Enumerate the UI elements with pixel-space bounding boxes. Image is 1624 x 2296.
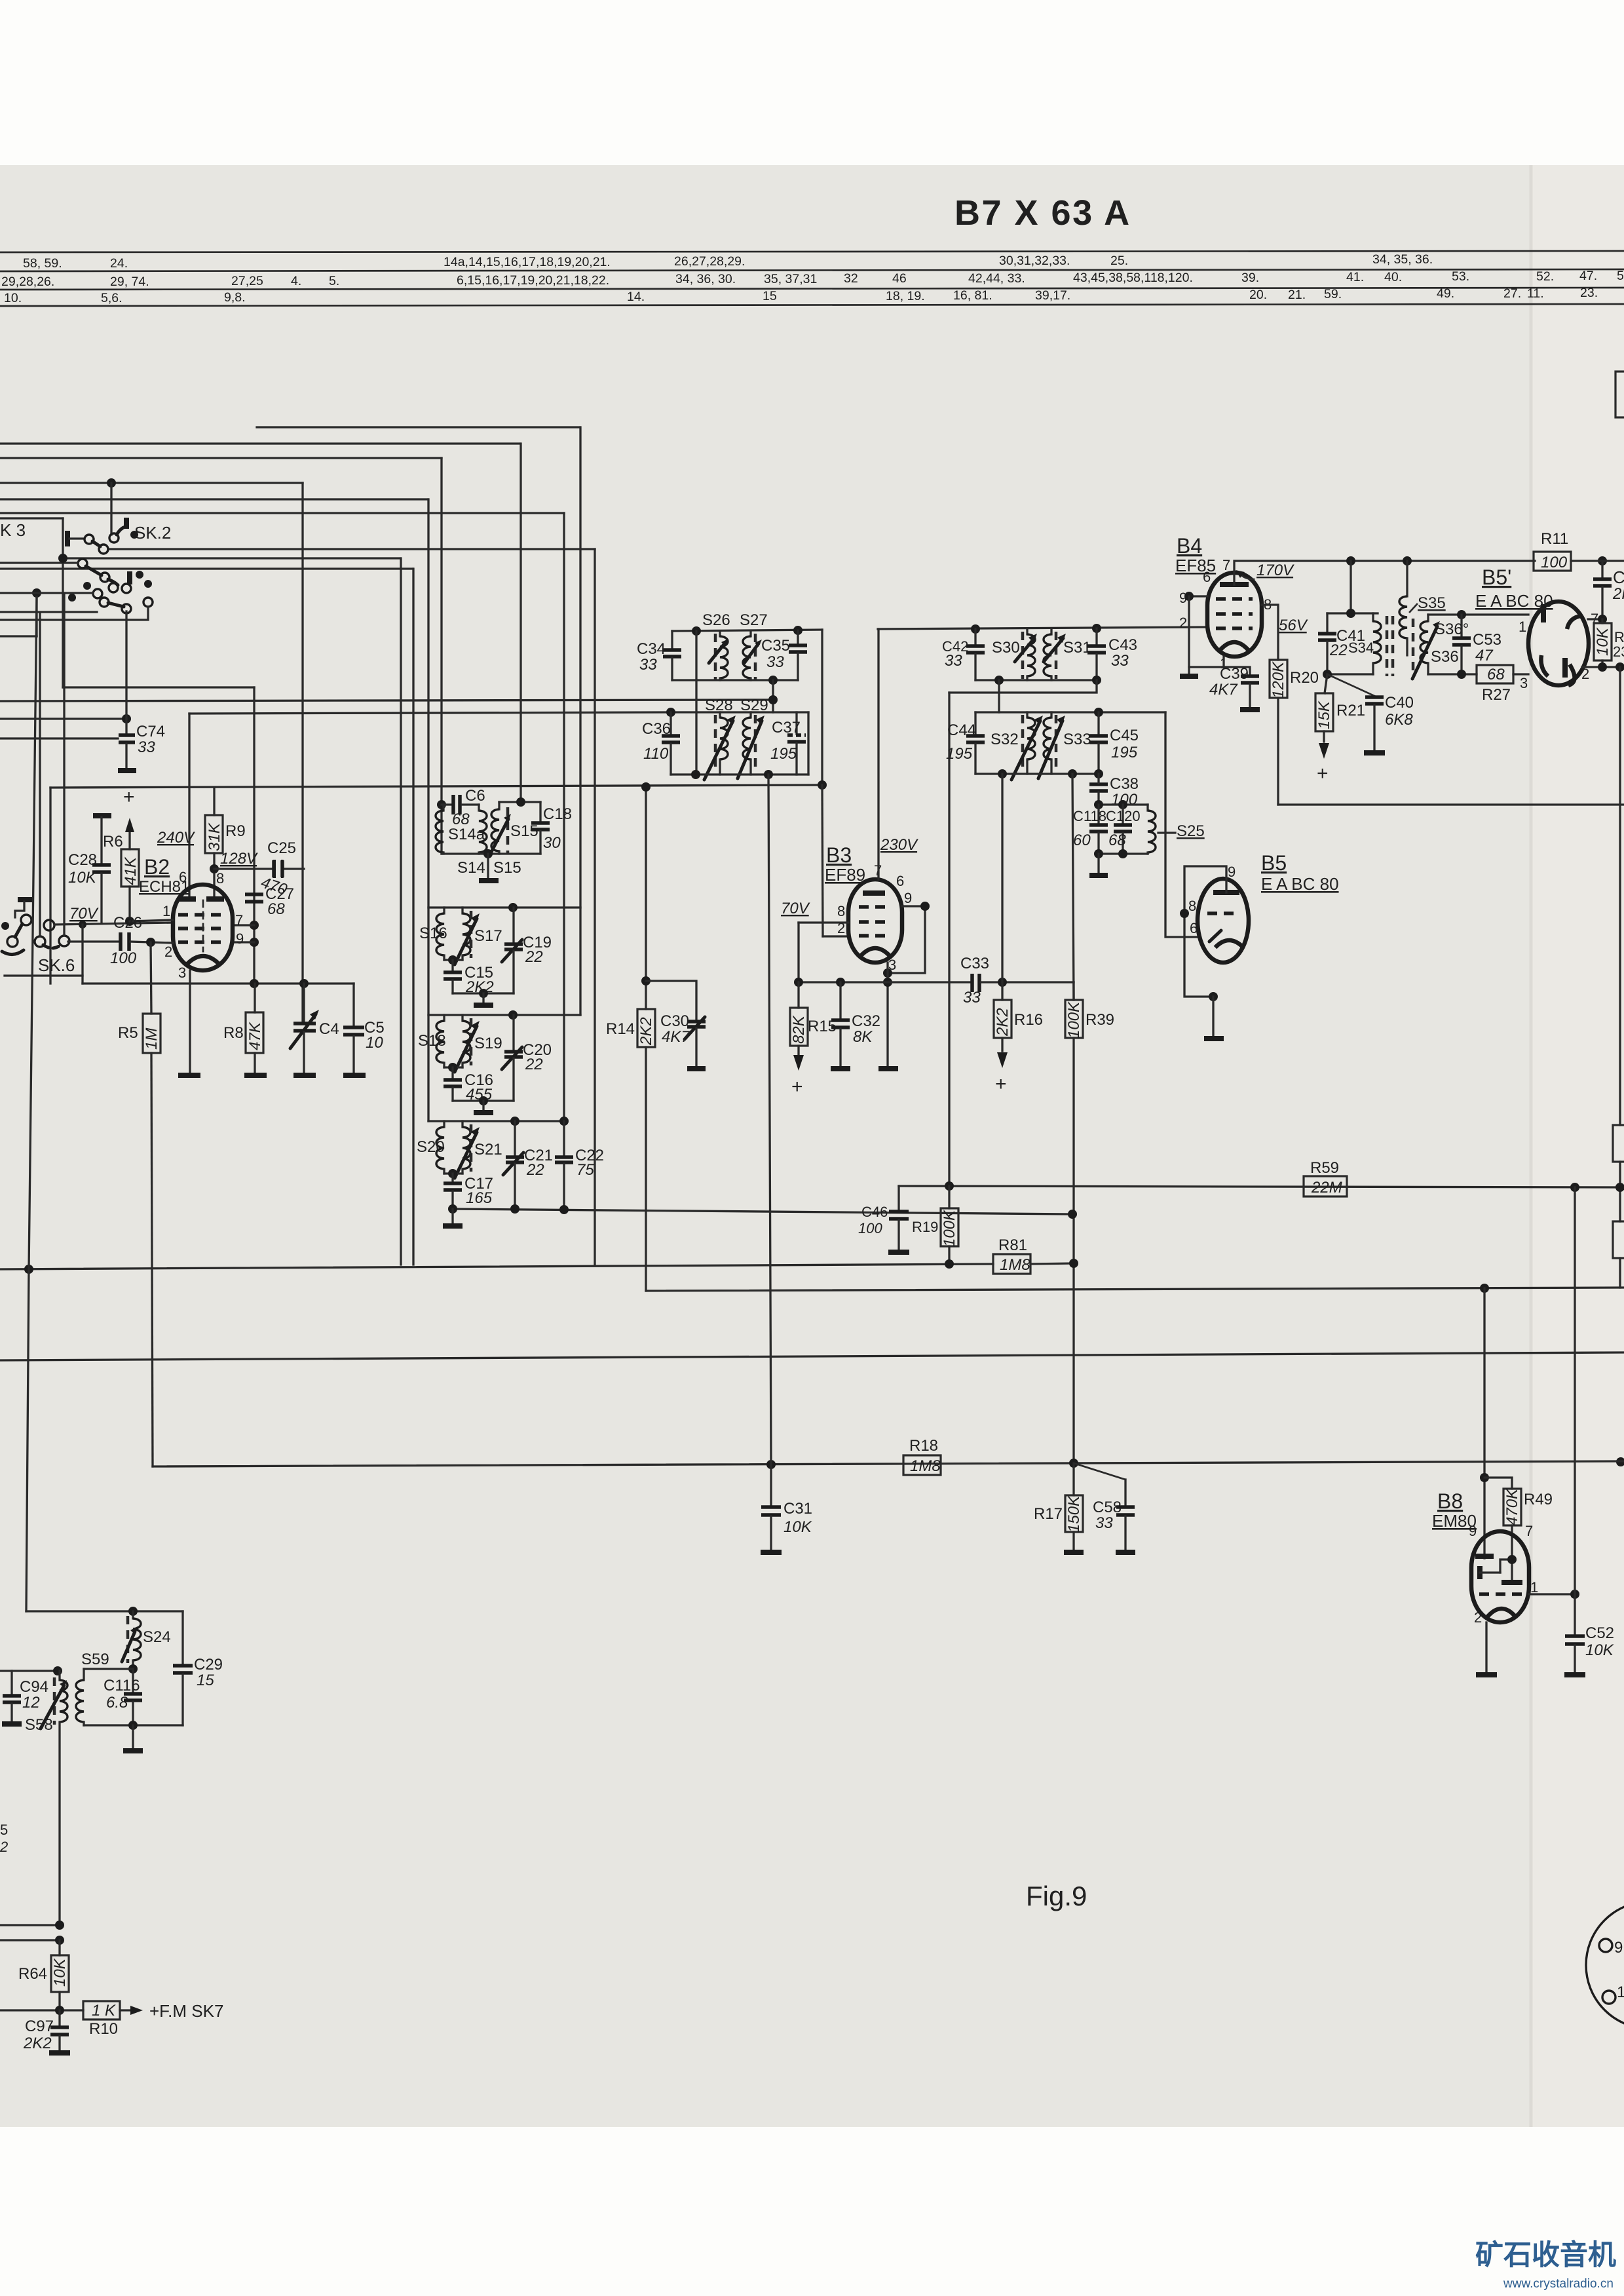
svg-text:68: 68 <box>1108 832 1126 849</box>
svg-text:S35: S35 <box>1418 594 1446 612</box>
node tank E right <box>793 626 803 635</box>
wire can D bottom bus to R39 <box>453 1209 1072 1214</box>
wire nested L1 <box>257 426 580 428</box>
svg-text:53.: 53. <box>1452 269 1469 284</box>
inductor S28 <box>704 697 736 780</box>
wire B3 pin3 <box>886 963 888 1067</box>
svg-text:C4: C4 <box>319 1020 339 1038</box>
svg-text:S28: S28 <box>705 697 733 714</box>
node det top mid <box>1118 800 1127 809</box>
svg-text:41.: 41. <box>1346 270 1364 284</box>
wire cathode bus y1501 <box>83 982 354 984</box>
wire AGC bus y1499 <box>799 981 970 983</box>
ground C31 <box>761 1550 782 1555</box>
svg-text:46: 46 <box>892 271 907 286</box>
svg-text:33: 33 <box>138 738 155 756</box>
node pin2/10K <box>1598 662 1607 672</box>
switch contact circle <box>143 598 153 607</box>
svg-text:SK.2: SK.2 <box>134 523 171 543</box>
wire B4 pin1 <box>1189 657 1224 667</box>
wire B5 cathode drop <box>1212 997 1214 1037</box>
svg-text:C97: C97 <box>25 2018 54 2035</box>
resistor R20 <box>1270 660 1319 805</box>
svg-text:23.: 23. <box>1580 286 1598 300</box>
node bus/C32 <box>836 978 845 987</box>
capacitor C5 <box>343 1019 385 1073</box>
svg-text:68: 68 <box>1487 666 1505 683</box>
resistor R49 <box>1484 1478 1553 1580</box>
pin numbers B8 <box>1469 1523 1538 1626</box>
node S36/C53 top <box>1457 610 1466 619</box>
svg-text:4K7: 4K7 <box>662 1028 690 1046</box>
node R14 top <box>641 782 651 792</box>
resistor R59 <box>1304 1159 1347 1196</box>
wire tank E right drop <box>821 630 823 785</box>
svg-text:22: 22 <box>525 1056 543 1073</box>
wire y3068 <box>0 2009 83 2011</box>
svg-text:B4: B4 <box>1177 534 1202 558</box>
capacitor C41 <box>1318 613 1365 674</box>
svg-text:100: 100 <box>858 1220 882 1236</box>
svg-text:R27: R27 <box>1482 686 1511 704</box>
inductor S58 <box>25 1671 67 1925</box>
svg-text:S20: S20 <box>417 1138 445 1156</box>
switch contact circle <box>100 598 109 607</box>
wire B8 anode vertical <box>1483 1288 1485 1558</box>
node tank bottom <box>1323 670 1332 679</box>
svg-text:S36: S36 <box>1431 648 1459 666</box>
inductor S20 <box>417 1121 445 1174</box>
svg-text:60: 60 <box>1073 832 1091 849</box>
svg-text:R16: R16 <box>1014 1011 1043 1029</box>
svg-text:C118: C118 <box>1073 808 1106 824</box>
svg-text:1M: 1M <box>143 1028 161 1050</box>
resistor R6 <box>103 786 140 923</box>
svg-text:K 3: K 3 <box>0 520 26 540</box>
svg-text:33: 33 <box>1095 1514 1113 1532</box>
svg-text:1: 1 <box>1617 1983 1624 2001</box>
wire switch row <box>0 607 148 620</box>
capacitor C17 <box>444 1174 493 1209</box>
capacitor C21 variable <box>503 1121 553 1209</box>
wire x126 drop <box>81 925 83 984</box>
svg-text:15: 15 <box>197 1672 214 1689</box>
svg-text:33: 33 <box>945 652 962 670</box>
ground C52 <box>1564 1672 1585 1677</box>
svg-text:9,8.: 9,8. <box>224 290 246 305</box>
capacitor C25 <box>259 839 296 899</box>
wire can A bottom <box>442 852 540 854</box>
node C41 top feed <box>1346 556 1355 565</box>
resistor R10 <box>83 2001 143 2038</box>
svg-text:33: 33 <box>1111 652 1129 670</box>
svg-text:+: + <box>1317 763 1329 784</box>
wire 70V to pin1 <box>130 920 173 921</box>
node R6 bottom <box>125 917 134 926</box>
svg-text:34, 35, 36.: 34, 35, 36. <box>1372 252 1433 267</box>
capacitor C46 <box>858 1186 909 1250</box>
svg-text:B5: B5 <box>1261 851 1287 875</box>
capacitor C38 <box>1089 774 1139 809</box>
wire 128V row <box>214 868 304 870</box>
IF can A: node C6 left <box>437 800 446 809</box>
wire bus y2073 <box>0 1352 1624 1360</box>
node x1180 on y1070 <box>768 695 778 704</box>
svg-text:矿石收音机: 矿石收音机 <box>1475 2240 1616 2271</box>
resistor R64 <box>18 1940 69 2010</box>
node R9 bottom 128V <box>210 864 219 873</box>
node C26/R5 <box>146 938 155 947</box>
IF can D top wire <box>428 1120 564 1122</box>
node B8 R49 tap <box>1480 1473 1489 1482</box>
wire B3 pin9 loop <box>888 906 925 973</box>
node R81/R19 <box>945 1259 954 1269</box>
wire S34 tank bottom <box>1327 673 1373 675</box>
wire x1530 drop to C33 bus <box>1001 774 1003 982</box>
wire x1449 drop <box>948 693 950 1186</box>
svg-text:33: 33 <box>639 656 657 674</box>
node tank F top left <box>666 708 675 717</box>
wire SK.2 drop from L4 <box>110 483 112 535</box>
node R11 right <box>1598 556 1607 565</box>
resistor R14 <box>606 1009 655 1291</box>
capacitor C26 <box>68 914 173 967</box>
svg-text:E A BC 80: E A BC 80 <box>1475 591 1553 611</box>
capacitor C30 variable <box>646 981 706 1067</box>
svg-text:1: 1 <box>1530 1579 1538 1596</box>
capacitor C97 <box>23 2010 69 2052</box>
inductor S19 <box>455 1015 502 1072</box>
svg-text:C25: C25 <box>267 839 296 857</box>
ground C116 <box>132 1725 134 1749</box>
svg-text:22: 22 <box>1329 641 1348 659</box>
svg-text:R18: R18 <box>909 1437 938 1455</box>
switch contact circle <box>99 545 108 554</box>
node can D bottom C21 <box>510 1204 519 1214</box>
wire coupling x1063 <box>695 631 697 775</box>
wire switch row <box>0 562 78 564</box>
svg-text:C36: C36 <box>642 720 671 738</box>
svg-text:27.: 27. <box>1503 286 1521 301</box>
node R18/C31 <box>766 1460 776 1469</box>
svg-text:C34: C34 <box>637 640 666 658</box>
wire det tank bottom <box>1099 852 1148 854</box>
svg-text:47K: 47K <box>246 1022 264 1050</box>
capacitor C22 <box>555 1121 604 1209</box>
svg-text:35, 37,31: 35, 37,31 <box>764 272 817 286</box>
node C116 bottom <box>128 1721 138 1730</box>
wire C27 drop <box>253 687 255 984</box>
node S58 top <box>53 1666 62 1675</box>
svg-text:52.: 52. <box>1536 269 1554 284</box>
wire switch row <box>0 592 93 594</box>
wire tank F right vert <box>807 712 809 775</box>
node pin9 <box>1184 592 1194 601</box>
svg-text:C32: C32 <box>852 1012 880 1030</box>
capacitor C16 <box>444 1067 493 1103</box>
svg-text:21.: 21. <box>1288 288 1306 302</box>
node y2961 <box>55 1936 64 1945</box>
wire right edge drop <box>1619 667 1621 1125</box>
svg-text:C33: C33 <box>960 955 989 972</box>
node R10 <box>55 2006 64 2015</box>
node 70V/x126 <box>79 921 86 928</box>
svg-text:20.: 20. <box>1249 288 1267 302</box>
node can D <box>448 1169 457 1178</box>
capacitor C6 <box>442 787 485 828</box>
node tank3 bottom <box>994 676 1004 685</box>
wire tank4 bottom <box>975 773 1099 775</box>
svg-text:30,31,32,33.: 30,31,32,33. <box>999 254 1070 268</box>
tube B4 EF85 <box>1207 573 1262 657</box>
wire vertical from L6 <box>563 513 565 1121</box>
svg-text:3: 3 <box>1520 675 1528 691</box>
wire B8 pin1 <box>1529 1593 1575 1595</box>
inductor S59 <box>76 1669 84 1725</box>
resistor R5 <box>118 1014 161 1053</box>
node C74 top <box>122 714 131 723</box>
svg-text:82K: 82K <box>790 1015 808 1044</box>
svg-text:E A BC 80: E A BC 80 <box>1261 874 1339 894</box>
tank S34/C41 top node <box>1350 561 1351 613</box>
svg-text:15: 15 <box>763 289 777 303</box>
wire R8 drop <box>254 984 255 1012</box>
wire B5' pin7 <box>1588 618 1602 620</box>
svg-text:39.: 39. <box>1241 271 1259 285</box>
pin numbers B5 <box>1188 864 1236 936</box>
capacitor C34 <box>637 631 681 680</box>
harness numbers row 3 <box>4 286 1598 305</box>
svg-text:2K2: 2K2 <box>23 2035 52 2052</box>
svg-text:C28: C28 <box>68 851 97 869</box>
node B5 pin8 <box>1180 909 1189 918</box>
svg-text:B7 X 63 A: B7 X 63 A <box>954 193 1131 233</box>
svg-text:2: 2 <box>164 944 172 960</box>
svg-text:165: 165 <box>466 1189 493 1207</box>
wire x1180 link <box>772 680 774 712</box>
resistor R81 <box>993 1236 1074 1274</box>
wire C94 top <box>0 1670 60 1672</box>
svg-text:15K: 15K <box>1315 700 1333 729</box>
capacitor C45 <box>1089 712 1139 774</box>
wire tank3-tank4 coupling <box>998 680 1000 712</box>
inductor S35 <box>1399 561 1446 655</box>
node C42 <box>971 624 980 634</box>
svg-text:58, 59.: 58, 59. <box>23 256 62 271</box>
svg-text:25.: 25. <box>1110 254 1128 268</box>
svg-text:10K: 10K <box>1594 627 1612 656</box>
svg-text:11.: 11. <box>1527 286 1544 301</box>
wire R5 drop <box>151 942 151 1014</box>
wire vertical from L9 <box>412 569 414 1265</box>
svg-text:B5': B5' <box>1482 565 1511 589</box>
node S35 feed <box>1403 556 1412 565</box>
wire left long vertical <box>26 597 37 1611</box>
node can D bottom <box>448 1204 457 1214</box>
wire y1049 <box>63 686 254 688</box>
svg-text:S26: S26 <box>702 611 730 629</box>
wire 70V drop <box>797 923 799 982</box>
svg-text:R39: R39 <box>1086 1011 1114 1029</box>
wire B8 pin2 <box>1485 1622 1487 1673</box>
node pin1/C52 <box>1570 1590 1579 1599</box>
wire B5 pin9 loop <box>1184 866 1226 997</box>
wire S14/S15 divider <box>487 854 489 879</box>
svg-text:2: 2 <box>0 1839 8 1855</box>
capacitor C37 <box>770 712 806 775</box>
inductor S21 <box>455 1121 502 1178</box>
svg-text:1M8: 1M8 <box>1000 1256 1030 1274</box>
ground B5 cathode <box>1204 1036 1224 1041</box>
node SK row2 <box>32 588 41 598</box>
resistor R18 <box>903 1437 941 1475</box>
ground B4 cathode <box>1180 674 1198 679</box>
resistor R16 <box>994 982 1043 1095</box>
wire 70V row <box>54 923 173 925</box>
svg-text:S15: S15 <box>493 859 521 877</box>
wire S59 top <box>84 1668 133 1670</box>
svg-text:R10: R10 <box>89 2020 118 2038</box>
svg-text:230V: 230V <box>880 836 918 854</box>
switch contact circle <box>122 604 131 613</box>
wire C31 vertical <box>768 775 771 1464</box>
inductor S16 <box>419 908 447 960</box>
svg-text:+: + <box>791 1076 803 1098</box>
svg-text:75: 75 <box>576 1161 594 1179</box>
svg-text:R20: R20 <box>1290 669 1319 687</box>
resistor R17 <box>1034 1463 1083 1550</box>
node tank E bottom <box>768 676 778 685</box>
svg-text:C26: C26 <box>113 914 142 932</box>
node can B <box>448 955 457 965</box>
wire x2404 vertical <box>1574 1187 1576 1594</box>
wire B4 pin8 to R20 <box>1262 605 1278 660</box>
switch SK.2 arm <box>117 527 125 535</box>
inductor S24 <box>122 1611 171 1669</box>
resistor right edge lower partial <box>1613 1187 1624 1288</box>
node R18 bus right edge <box>1616 1457 1624 1466</box>
svg-text:2: 2 <box>1179 615 1187 631</box>
svg-text:C: C <box>1613 567 1624 587</box>
svg-text:C44: C44 <box>947 721 976 739</box>
node R81/R39 <box>1069 1259 1078 1268</box>
switch mid bar <box>127 571 132 584</box>
capacitor C29 <box>173 1611 223 1725</box>
svg-text:B3: B3 <box>826 843 852 867</box>
resistor right edge box top <box>1615 372 1624 417</box>
switch SK.3 pole bar <box>65 531 70 546</box>
capacitor C20 variable <box>502 1015 552 1101</box>
node pin7 joint <box>250 921 259 930</box>
svg-text:195: 195 <box>770 745 797 763</box>
core S36 <box>1412 619 1415 676</box>
wire vertical from L7 <box>594 549 595 1265</box>
wire harness line 3 <box>0 288 1624 290</box>
svg-text:14a,14,15,16,17,18,19,20,21.: 14a,14,15,16,17,18,19,20,21. <box>444 255 611 269</box>
ground C58 <box>1116 1550 1135 1555</box>
wire can B coils bottom <box>444 959 463 961</box>
wire y1127 <box>0 737 118 739</box>
resistor R19 <box>912 1186 958 1264</box>
node can D top <box>510 1117 519 1126</box>
wire R20 bottom bus <box>1278 803 1624 805</box>
node y1501 C27 <box>250 979 259 988</box>
wire R59 bus <box>899 1186 1624 1187</box>
svg-text:C94: C94 <box>20 1678 48 1696</box>
svg-text:S25: S25 <box>1177 822 1205 840</box>
svg-text:170V: 170V <box>1256 562 1294 579</box>
node can B top <box>508 903 518 912</box>
node B5 cathode <box>1209 992 1218 1001</box>
svg-text:6: 6 <box>1203 569 1211 585</box>
capacitor C right edge <box>1593 561 1624 617</box>
svg-text:C37: C37 <box>772 719 801 737</box>
wire switch row <box>0 517 63 519</box>
svg-text:27,25: 27,25 <box>231 274 263 288</box>
svg-text:C6: C6 <box>465 787 485 805</box>
capacitor C44 <box>946 712 985 774</box>
wire B4 pin9 <box>1189 595 1207 597</box>
wire y2961 <box>0 1939 60 1941</box>
svg-text:5.: 5. <box>329 274 339 288</box>
svg-text:R21: R21 <box>1336 702 1365 719</box>
wire R18 bus <box>153 1461 1624 1466</box>
wire nested L5 <box>0 498 428 500</box>
node tank4 top <box>1094 708 1103 717</box>
wire tank E bottom <box>672 679 798 681</box>
wire AVC bus y1970 <box>646 1288 1624 1291</box>
inductor S29 <box>738 697 768 778</box>
switch arm <box>86 566 102 575</box>
svg-text:100K: 100K <box>941 1210 958 1247</box>
wire C5 drop <box>352 984 354 1026</box>
tube B3 EF89 <box>848 879 902 963</box>
svg-text:R11: R11 <box>1541 530 1568 548</box>
ground C39 <box>1240 707 1260 712</box>
svg-text:C31: C31 <box>784 1500 812 1518</box>
ground B2 pin3 <box>178 1073 200 1078</box>
switch arm curved <box>108 579 118 585</box>
svg-text:R6: R6 <box>103 833 123 851</box>
node R39/S20 bus <box>1068 1210 1077 1219</box>
node R59/R19 <box>945 1181 954 1191</box>
svg-text:R9: R9 <box>225 822 246 840</box>
svg-text:22: 22 <box>526 1161 544 1179</box>
svg-text:+F.M SK7: +F.M SK7 <box>149 2001 223 2021</box>
wire tank3 bottom <box>975 679 1097 681</box>
wire S34 tank top <box>1327 612 1378 614</box>
svg-text:R17: R17 <box>1034 1505 1063 1523</box>
node tank E coupling <box>692 626 701 636</box>
node tank top <box>1346 609 1355 618</box>
inductor S34 <box>1348 613 1381 674</box>
svg-text:195: 195 <box>946 745 973 763</box>
wire y1097 <box>0 717 126 719</box>
svg-text:S18: S18 <box>418 1032 446 1050</box>
svg-text:70V: 70V <box>69 905 99 923</box>
svg-text:7: 7 <box>235 912 243 928</box>
resistor R21 <box>1315 674 1365 784</box>
arrow 170V <box>1240 574 1254 579</box>
svg-text:6,15,16,17,19,20,21,18,22.: 6,15,16,17,19,20,21,18,22. <box>457 273 609 288</box>
svg-text:31K: 31K <box>206 822 223 851</box>
wire B3 pin8 <box>799 921 848 923</box>
wire R81 bus <box>0 1264 993 1269</box>
svg-text:6: 6 <box>896 873 904 889</box>
svg-text:SK.6: SK.6 <box>38 955 75 975</box>
svg-text:C40: C40 <box>1385 694 1414 712</box>
svg-text:R8: R8 <box>223 1024 244 1042</box>
